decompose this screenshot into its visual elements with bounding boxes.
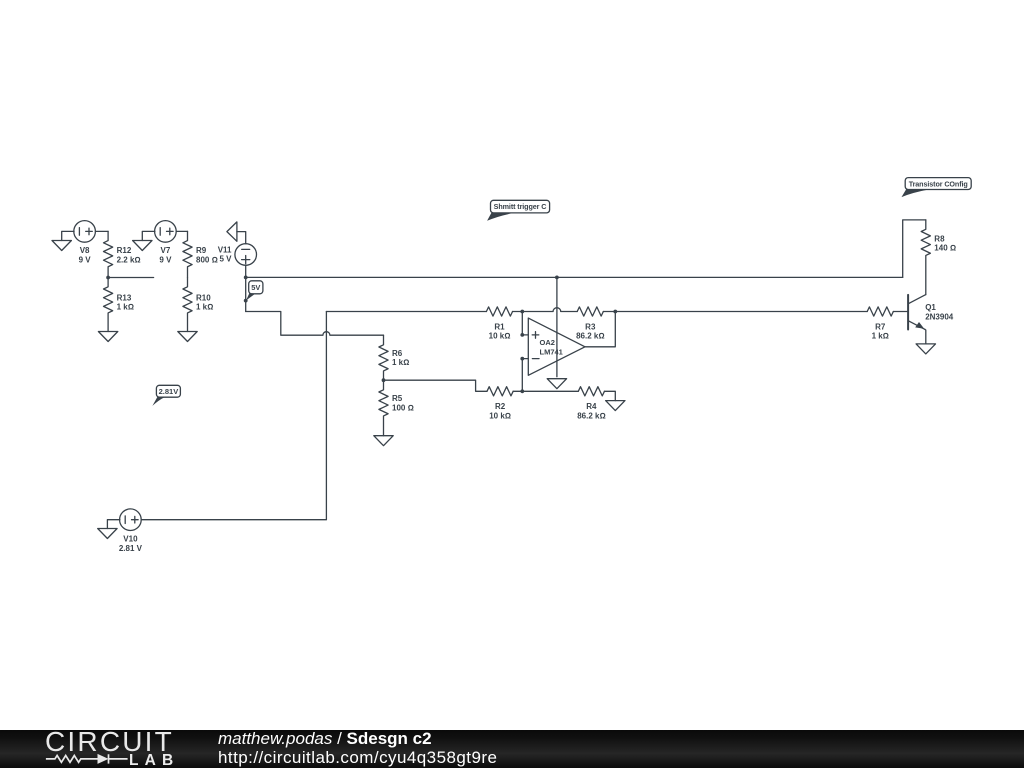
svg-text:2.81V: 2.81V <box>159 387 179 396</box>
wire R7 to Q1 base <box>893 311 908 313</box>
svg-text:Shmitt trigger C: Shmitt trigger C <box>494 202 547 211</box>
CircuitLab logo wordmark <box>45 726 174 758</box>
footer bar <box>0 730 1024 768</box>
resistor R3 <box>577 307 603 316</box>
ground GND-opamp <box>547 379 566 389</box>
resistor R13 <box>104 278 113 332</box>
wire V8 to R12 <box>95 230 108 232</box>
wire R6 node to R2 <box>384 380 488 391</box>
svg-text:R7: R7 <box>875 322 886 331</box>
svg-text:R12: R12 <box>117 246 132 255</box>
svg-text:R9: R9 <box>196 246 207 255</box>
svg-text:9 V: 9 V <box>79 255 92 264</box>
svg-text:1 kΩ: 1 kΩ <box>872 332 889 341</box>
svg-text:Transistor COnfig: Transistor COnfig <box>909 179 968 188</box>
resistor R4 <box>578 387 604 396</box>
svg-text:R4: R4 <box>586 402 597 411</box>
ground GND-R4 <box>606 401 625 411</box>
node R6-R5 junction <box>382 378 386 382</box>
wire V7 to R9 <box>176 230 187 232</box>
svg-text:R8: R8 <box>934 234 945 243</box>
annotation flag Transistor COnfig <box>902 178 972 198</box>
wire V11 bottom lead down to row <box>245 265 247 311</box>
resistor R10 <box>183 278 192 332</box>
schematic url <box>218 748 497 768</box>
node plus input <box>520 333 524 337</box>
svg-text:86.2 kΩ: 86.2 kΩ <box>576 332 604 341</box>
wire op-amp minus input stub <box>522 359 528 392</box>
resistor R9 <box>183 231 192 277</box>
voltage source V8 <box>74 221 96 243</box>
ground GND-R10 <box>178 332 197 342</box>
annotation flag 2.81V <box>152 385 180 406</box>
CircuitLab logo squiggle (resistor + diode) <box>44 751 130 767</box>
op-amp minus symbol <box>532 358 539 360</box>
resistor R7 <box>867 307 893 316</box>
node op-amp plus branch <box>520 310 524 314</box>
ground GND-R13 <box>98 332 117 342</box>
wire V10 to main row riser <box>141 312 326 520</box>
svg-text:100 Ω: 100 Ω <box>392 403 414 412</box>
svg-text:R2: R2 <box>495 402 506 411</box>
node 5V flag attach <box>244 299 248 303</box>
svg-text:Q1: Q1 <box>925 303 936 312</box>
wire op-amp output feedback <box>585 312 615 347</box>
svg-text:10 kΩ: 10 kΩ <box>489 411 511 420</box>
node V11 bus junction <box>244 276 248 280</box>
annotation flag Shmitt trigger C <box>487 200 549 221</box>
wire R1 to R3 with hop over supply wire <box>513 308 578 312</box>
wire R4 to ground <box>604 391 615 400</box>
voltage source V10 <box>120 509 142 531</box>
svg-text:2.81 V: 2.81 V <box>119 544 143 553</box>
node bus op-amp supply junction <box>555 276 559 280</box>
wire V7 negative lead <box>142 231 155 240</box>
resistor R12 <box>104 231 113 277</box>
node R3 output junction <box>613 310 617 314</box>
wire V8 negative lead <box>62 231 74 240</box>
ground GND-V8 <box>52 241 71 251</box>
svg-text:LM741: LM741 <box>540 347 563 356</box>
transistor Q1 collector lead <box>908 295 926 304</box>
svg-text:1 kΩ: 1 kΩ <box>196 303 213 312</box>
svg-text:OA2: OA2 <box>540 338 555 347</box>
ground GND-R5 <box>374 436 393 446</box>
wire bus riser to R8 <box>903 220 926 278</box>
node R12-R13 junction <box>106 276 110 280</box>
voltage source V11 <box>235 244 257 266</box>
svg-text:R6: R6 <box>392 349 403 358</box>
resistor R6 <box>379 335 388 380</box>
svg-text:5 V: 5 V <box>219 254 232 263</box>
transistor Q1 base bar <box>907 295 909 330</box>
svg-text:1 kΩ: 1 kΩ <box>392 358 409 367</box>
wire 5V branch to R6 with hop over V10 riser <box>246 312 384 336</box>
svg-text:9 V: 9 V <box>159 255 172 264</box>
wire stub from node <box>108 277 154 279</box>
ground GND-V11 rotated <box>227 222 237 241</box>
svg-text:V8: V8 <box>80 246 90 255</box>
transistor Q1 emitter lead with arrow <box>908 321 925 330</box>
wire V11 top lead <box>237 232 246 244</box>
svg-text:140 Ω: 140 Ω <box>934 244 956 253</box>
resistor R1 <box>486 307 512 316</box>
ground GND-V7 <box>133 241 152 251</box>
resistor R5 <box>379 380 388 436</box>
wire op-amp supply rail <box>556 277 558 376</box>
svg-text:5V: 5V <box>251 283 260 292</box>
wire R2 to R4 <box>513 390 578 392</box>
svg-text:2N3904: 2N3904 <box>925 313 954 322</box>
ground GND-V10 <box>98 529 117 539</box>
svg-text:2.2 kΩ: 2.2 kΩ <box>117 255 141 264</box>
schematic title <box>218 729 432 749</box>
svg-text:R13: R13 <box>117 293 132 302</box>
voltage source V7 <box>155 221 177 243</box>
resistor R8 <box>921 220 930 295</box>
wire 5V power bus <box>246 276 903 278</box>
resistor R2 <box>487 387 513 396</box>
wire V10 negative lead <box>107 520 120 529</box>
wire R3 to R7 <box>603 311 867 313</box>
op-amp plus symbol <box>532 332 539 339</box>
wire op-amp plus input stub <box>522 312 528 335</box>
node minus input <box>520 357 524 361</box>
svg-text:V10: V10 <box>123 535 138 544</box>
svg-text:R10: R10 <box>196 293 211 302</box>
node minus to R2R4 junction <box>520 389 524 393</box>
svg-text:R1: R1 <box>494 322 505 331</box>
svg-text:V11: V11 <box>218 245 232 254</box>
svg-text:R3: R3 <box>585 322 596 331</box>
op-amp OA2 triangle <box>528 318 585 375</box>
svg-text:800 Ω: 800 Ω <box>196 255 218 264</box>
ground GND-Q1 <box>916 344 935 354</box>
svg-text:V7: V7 <box>161 246 171 255</box>
svg-text:1 kΩ: 1 kΩ <box>117 303 134 312</box>
wire Q1 emitter to ground <box>925 329 926 344</box>
net flag 5V <box>246 281 263 301</box>
wire main row to R1 <box>326 311 486 313</box>
svg-text:10 kΩ: 10 kΩ <box>489 332 511 341</box>
svg-text:R5: R5 <box>392 394 403 403</box>
svg-text:86.2 kΩ: 86.2 kΩ <box>577 411 605 420</box>
